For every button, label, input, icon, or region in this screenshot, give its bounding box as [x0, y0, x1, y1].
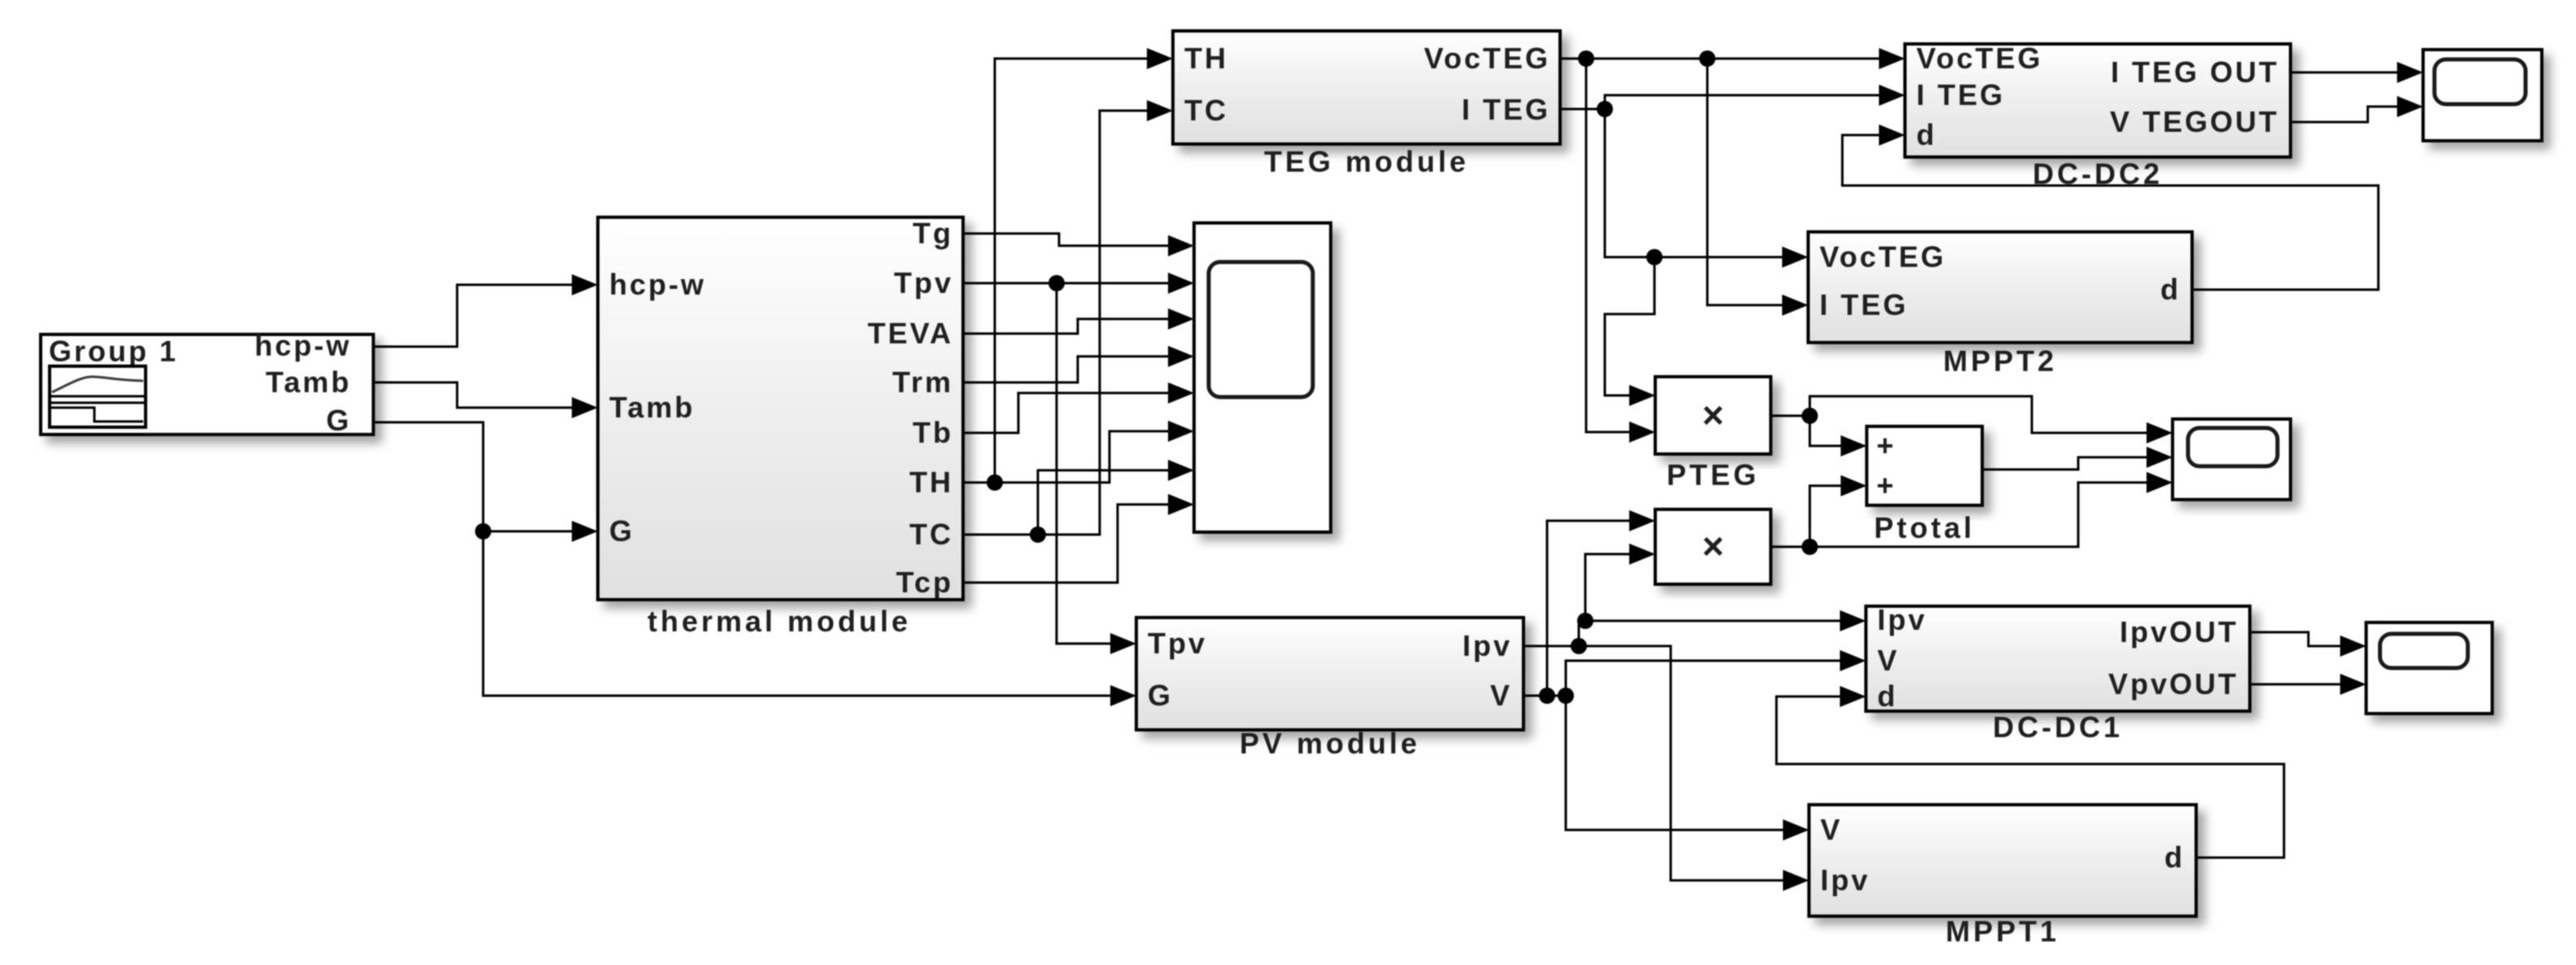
svg-text:G: G	[326, 404, 351, 437]
svg-text:MPPT1: MPPT1	[1946, 915, 2059, 948]
svg-text:MPPT2: MPPT2	[1943, 344, 2057, 378]
svg-text:G: G	[1148, 679, 1173, 712]
svg-text:G: G	[609, 514, 634, 548]
svg-text:Tpv: Tpv	[894, 266, 953, 299]
svg-text:TEVA: TEVA	[868, 317, 953, 350]
svg-text:VocTEG: VocTEG	[1820, 240, 1946, 273]
svg-text:+: +	[1876, 429, 1894, 462]
svg-text:I TEG: I TEG	[1462, 93, 1550, 126]
svg-text:d: d	[2160, 273, 2181, 306]
svg-text:TEG module: TEG module	[1264, 145, 1469, 178]
svg-text:Tg: Tg	[913, 216, 953, 250]
svg-text:×: ×	[1702, 394, 1724, 436]
svg-text:V: V	[1877, 644, 1899, 677]
svg-text:Tamb: Tamb	[266, 365, 351, 399]
svg-text:Tb: Tb	[913, 416, 953, 449]
svg-text:+: +	[1876, 469, 1894, 502]
svg-text:hcp-w: hcp-w	[609, 268, 706, 301]
svg-text:Group 1: Group 1	[49, 334, 178, 368]
svg-text:PV module: PV module	[1240, 727, 1420, 760]
svg-text:Ipv: Ipv	[1462, 629, 1512, 662]
svg-text:PTEG: PTEG	[1667, 458, 1759, 491]
svg-text:hcp-w: hcp-w	[255, 329, 351, 362]
svg-text:V: V	[1490, 679, 1512, 712]
svg-text:DC-DC1: DC-DC1	[1993, 710, 2123, 744]
svg-text:V TEGOUT: V TEGOUT	[2110, 105, 2279, 138]
svg-text:×: ×	[1702, 525, 1724, 567]
svg-text:VocTEG: VocTEG	[1916, 41, 2042, 75]
svg-text:I TEG OUT: I TEG OUT	[2111, 55, 2279, 89]
svg-text:d: d	[1877, 679, 1898, 713]
svg-text:TC: TC	[1184, 94, 1228, 127]
svg-text:Tcp: Tcp	[896, 565, 953, 599]
svg-text:Trm: Trm	[892, 365, 953, 399]
svg-text:Tpv: Tpv	[1148, 627, 1207, 660]
svg-text:I TEG: I TEG	[1820, 288, 1908, 321]
svg-text:Tamb: Tamb	[609, 391, 695, 424]
svg-text:V: V	[1820, 813, 1842, 846]
svg-text:d: d	[1916, 118, 1937, 151]
svg-text:TH: TH	[909, 465, 953, 499]
svg-text:IpvOUT: IpvOUT	[2120, 615, 2238, 648]
svg-text:Ipv: Ipv	[1877, 603, 1927, 636]
svg-text:TC: TC	[909, 517, 953, 551]
svg-text:I TEG: I TEG	[1916, 78, 2005, 111]
svg-text:TH: TH	[1184, 41, 1228, 75]
svg-text:VocTEG: VocTEG	[1424, 41, 1550, 75]
svg-text:thermal module: thermal module	[647, 605, 911, 638]
svg-text:d: d	[2164, 841, 2185, 874]
svg-text:VpvOUT: VpvOUT	[2108, 667, 2238, 701]
svg-text:Ipv: Ipv	[1820, 863, 1870, 897]
svg-text:Ptotal: Ptotal	[1874, 511, 1975, 544]
